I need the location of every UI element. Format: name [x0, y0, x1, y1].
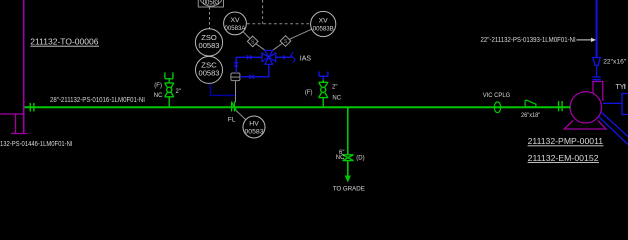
svg-text:XV: XV: [319, 17, 329, 24]
svg-text:00583: 00583: [199, 43, 220, 50]
svg-text:211132-TO-00006: 211132-TO-00006: [30, 36, 98, 46]
svg-text:NC: NC: [336, 155, 345, 161]
svg-text:ZSC: ZSC: [201, 63, 217, 70]
svg-text:211132-EM-00152: 211132-EM-00152: [528, 153, 599, 163]
svg-text:00583: 00583: [203, 0, 220, 6]
svg-text:NC: NC: [332, 96, 341, 102]
svg-text:HV: HV: [249, 120, 259, 127]
svg-text:TY: TY: [616, 84, 625, 91]
svg-text:28"-211132-PS-01016-1LM0F01-NI: 28"-211132-PS-01016-1LM0F01-NI: [50, 97, 145, 104]
svg-text:TO GRADE: TO GRADE: [333, 186, 365, 193]
svg-text:00583B: 00583B: [313, 25, 334, 32]
svg-text:FL: FL: [228, 117, 236, 124]
svg-text:132-PS-01446-1LM0F01-NI: 132-PS-01446-1LM0F01-NI: [0, 141, 73, 148]
svg-text:(F): (F): [305, 90, 313, 96]
svg-text:NC: NC: [154, 93, 163, 99]
svg-text:00583A: 00583A: [225, 25, 247, 32]
svg-text:(F): (F): [154, 83, 162, 89]
svg-text:IAS: IAS: [300, 55, 312, 62]
svg-text:2": 2": [332, 85, 337, 91]
svg-text:22"x16": 22"x16": [603, 59, 627, 66]
svg-text:2": 2": [176, 89, 181, 95]
svg-text:(D): (D): [356, 155, 364, 161]
svg-text:XV: XV: [231, 17, 241, 24]
svg-text:26"x18": 26"x18": [521, 112, 540, 119]
svg-text:VIC CPLG: VIC CPLG: [483, 92, 511, 99]
svg-text:ZSO: ZSO: [201, 35, 217, 42]
svg-text:00583: 00583: [245, 128, 264, 135]
svg-text:00583: 00583: [199, 70, 220, 77]
svg-text:211132-PMP-00011: 211132-PMP-00011: [528, 136, 604, 146]
svg-text:22"-211132-PS-01393-1LM0F01-NI: 22"-211132-PS-01393-1LM0F01-NI: [481, 37, 576, 44]
